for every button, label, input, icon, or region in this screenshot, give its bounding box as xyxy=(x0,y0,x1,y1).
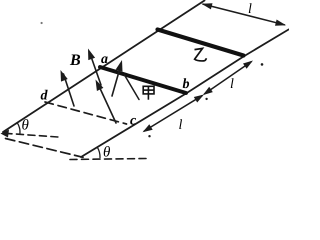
rail 1 (upper-left rail through d and a) xyxy=(3,1,205,133)
svg-text:l: l xyxy=(179,118,183,133)
measure arrowhead M1 left xyxy=(202,3,213,9)
wire: dashed horizontal at theta1 xyxy=(5,133,58,137)
measure arrowhead M1 right xyxy=(275,20,286,26)
B field arrow A4 shaft xyxy=(112,68,120,96)
B field arrow A3 shaft xyxy=(98,84,116,123)
rod 甲 (conducting rod a-b) xyxy=(100,67,186,93)
svg-text:b: b xyxy=(183,77,190,92)
dot after M2 upper xyxy=(261,63,264,66)
measure line l mid right (b to end of rod 乙) xyxy=(205,62,252,94)
measure arrowhead M2 upper xyxy=(243,61,253,69)
svg-text:a: a xyxy=(101,52,108,67)
arrowhead A4 xyxy=(116,60,123,72)
dot below M3 lower xyxy=(148,135,150,137)
svg-text:θ: θ xyxy=(22,118,30,134)
wire: dashed horizontal at theta2 xyxy=(70,159,146,160)
B field arrow A1 shaft xyxy=(64,74,75,106)
rod 乙 (conducting rod upper right) xyxy=(158,30,244,56)
svg-text:d: d xyxy=(41,89,49,104)
measure arrowhead M2 lower xyxy=(203,87,213,95)
arrowhead A1 xyxy=(61,70,68,82)
rail 2 (lower-right rail through c and b) xyxy=(81,30,289,158)
measure arrowhead M3 upper xyxy=(194,95,204,103)
dot below M2/M3 junction xyxy=(205,98,207,100)
dot speck top left xyxy=(41,22,43,24)
arrowhead A3 xyxy=(96,80,104,92)
svg-text:l: l xyxy=(230,77,234,92)
svg-text:c: c xyxy=(130,114,137,129)
measure line l bottom (c to b) xyxy=(144,96,202,131)
svg-text:θ: θ xyxy=(103,144,111,160)
wire: dashed bottom edge vertex1-vertex2 xyxy=(6,139,84,158)
svg-text:B: B xyxy=(69,52,81,69)
angle arc theta1 xyxy=(17,123,20,135)
wedge mark at left vertex xyxy=(1,130,10,138)
label leader for rod 甲 xyxy=(125,75,140,100)
angle arc theta2 xyxy=(97,147,100,158)
arrowhead A2 xyxy=(88,49,95,61)
measure arrowhead M3 lower xyxy=(143,124,153,132)
wire: dashed line d-c xyxy=(45,102,127,124)
svg-text:l: l xyxy=(248,2,252,17)
B field arrow A2 shaft xyxy=(91,55,102,85)
label 乙 (CJK drawn as strokes) xyxy=(195,48,207,61)
label 甲 (CJK drawn as strokes) xyxy=(143,86,154,99)
measure line l top right xyxy=(203,4,285,25)
